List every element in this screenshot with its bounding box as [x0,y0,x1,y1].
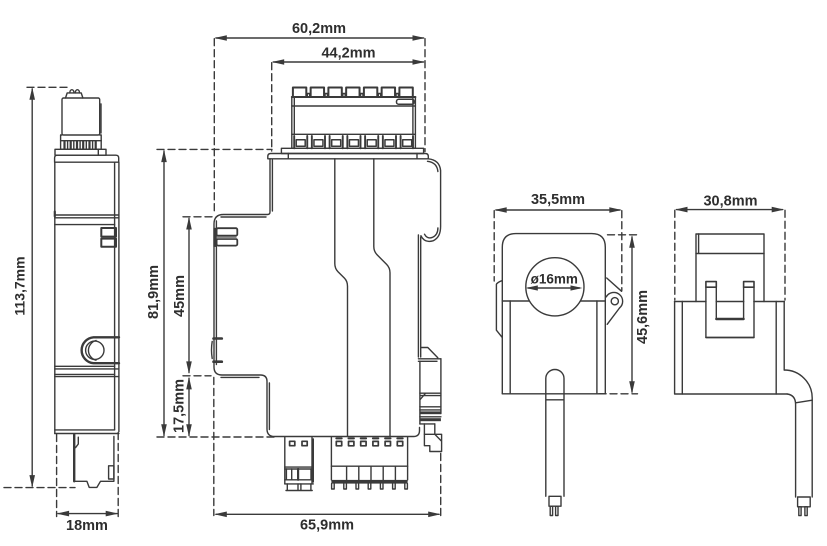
dimension 18mm extension dashes [57,433,119,517]
CT side U-clip caps [706,282,716,288]
side view body right edges [115,162,119,431]
latch stack [420,393,441,424]
CT side cable elbow [784,370,812,497]
svg-text:113,7mm: 113,7mm [12,256,28,315]
latch neck [424,424,434,434]
side view terminal block [62,98,100,135]
dimension 81,9mm line [163,151,165,436]
dimension extension dashes left [157,149,278,437]
CT front body outline [502,234,605,394]
dimension o16mm line [528,287,580,289]
dimension 113,7mm extension dashes [27,86,70,88]
CT side U channel [716,287,743,319]
CT front cable stem [546,370,564,394]
dimension 65,9mm line [216,513,439,515]
svg-text:18mm: 18mm [66,518,108,534]
svg-text:ø16mm: ø16mm [531,271,578,286]
svg-text:30,8mm: 30,8mm [703,194,757,210]
dimension 17,5mm line [188,378,190,435]
CT front extension dashes [494,211,622,291]
bottom left terminal block [285,437,314,484]
CT front split line [502,300,605,302]
teeth gap nubs [307,94,398,97]
dimension 45,6mm line [631,237,633,392]
side view flange [55,149,106,155]
dimension 113,7mm line [31,89,33,486]
svg-text:60,2mm: 60,2mm [292,21,346,37]
DIN hook top right outer [421,159,441,242]
svg-text:17,5mm: 17,5mm [172,379,188,433]
side view right tabs [101,228,116,237]
dimension 60,2mm line [216,37,424,39]
svg-text:81,9mm: 81,9mm [146,265,162,319]
bottom right terminal block [331,437,407,480]
body outline inner doubles [216,160,272,430]
latch foot [424,434,441,451]
pawl [418,348,441,362]
body outline left [214,159,420,437]
dimension 45mm line [188,219,190,373]
svg-text:45,6mm: 45,6mm [635,290,651,344]
CT side body top edge [675,301,785,303]
side view body left edge [54,162,56,433]
side view top bumps [70,90,80,93]
side view body bottom lines [55,430,119,434]
internal contour line B [374,159,390,437]
side view top platform [66,93,83,98]
svg-text:35,5mm: 35,5mm [531,192,585,208]
dimension 18mm line [58,513,117,515]
left edge louver tabs [213,228,216,247]
internal contour line A [335,159,348,437]
dimension extension dashes bottom [214,378,441,516]
side view edge tick [54,212,56,217]
slot row [292,134,416,148]
CT side U-clip housing [706,287,754,337]
CT front hinge tab [496,281,502,338]
right wall double [418,235,420,357]
left edge nubs [214,339,222,362]
dimension extension dashes top [214,39,425,214]
dimension 35,5mm line [496,209,620,211]
dimension 44,2mm line [273,61,423,63]
side view top plate [55,155,119,162]
svg-text:44,2mm: 44,2mm [321,46,375,62]
svg-text:45mm: 45mm [172,275,188,317]
side view striped section [61,141,102,150]
CT front hole circle [526,258,584,316]
CT side extension dashes [675,210,785,300]
side view clip lever D-tab [82,337,119,363]
side view bottom foot [73,435,75,482]
side view body horizontal lines [55,215,119,225]
CT front lower body inner lines [502,301,606,394]
flange plate 1 [281,148,423,153]
label slot [397,99,415,104]
dimension 30,8mm line [677,209,783,211]
terminal block face [292,97,416,148]
flange plate 2 / body top rim [268,154,429,159]
svg-text:65,9mm: 65,9mm [300,518,354,534]
top terminal teeth [292,96,416,98]
CT side top block [696,234,764,302]
CT front latch pawl [607,278,622,291]
CT side lower body [675,302,788,395]
DIN hook inner curl [425,228,438,238]
